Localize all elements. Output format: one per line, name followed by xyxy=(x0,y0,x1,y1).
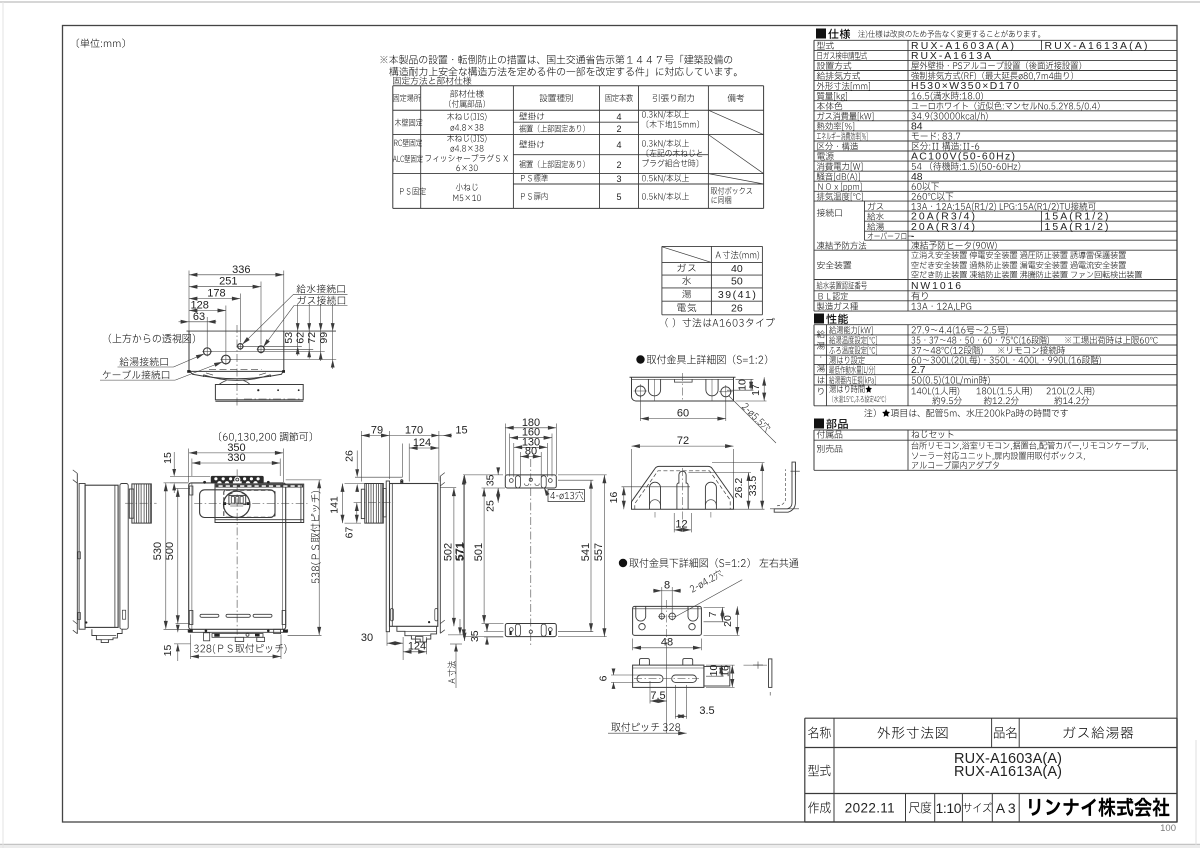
front top extension lines xyxy=(188,449,190,483)
svg-text:35: 35 xyxy=(469,630,481,642)
svg-text:35: 35 xyxy=(485,474,497,486)
svg-text:178: 178 xyxy=(207,288,225,300)
svg-text:12: 12 xyxy=(675,519,687,531)
bracket top dim 10 xyxy=(750,379,752,390)
right view cylinder connector xyxy=(383,489,386,517)
left view body xyxy=(85,485,118,627)
svg-text:26: 26 xyxy=(343,450,355,462)
dim 350 xyxy=(189,452,284,454)
mounting pitch 328 label xyxy=(611,722,680,731)
right view dim 124 top xyxy=(409,447,439,449)
svg-text:100: 100 xyxy=(1160,823,1176,834)
svg-text:124: 124 xyxy=(408,641,426,653)
right view top dims 79 170 15 xyxy=(361,435,389,437)
left view cylinder center line xyxy=(125,502,157,504)
right view mounting plate xyxy=(386,481,389,632)
bracket top slots u-shapes xyxy=(648,379,660,396)
4-phi13 hole label xyxy=(548,490,585,502)
cable label xyxy=(103,370,169,379)
safety devices 3 lines xyxy=(911,251,1125,259)
bracket top dim 17 xyxy=(763,377,765,401)
right view exhaust cylinder xyxy=(365,484,384,524)
bracket side slots oblong xyxy=(637,675,663,682)
vertical dims 53 62 72 99 xyxy=(297,304,299,356)
right view top bracket bump xyxy=(401,480,403,484)
right view dim 571 xyxy=(463,476,465,638)
bracket bottom detail label xyxy=(619,559,627,567)
right view dim 502 xyxy=(453,488,455,627)
svg-text:4: 4 xyxy=(616,140,621,150)
svg-text:170: 170 xyxy=(405,425,423,437)
top view exhaust duct box xyxy=(215,385,303,400)
A-dim caption xyxy=(666,318,775,327)
svg-text:50: 50 xyxy=(731,276,743,288)
bracket top dim 60 xyxy=(640,418,725,420)
svg-text:7.5: 7.5 xyxy=(650,690,665,702)
company name Rinnai xyxy=(1029,798,1169,817)
bracket side dim 3.5 xyxy=(675,715,686,717)
svg-text:RUX-A1613A(A): RUX-A1613A(A) xyxy=(954,764,1062,780)
svg-text:84: 84 xyxy=(911,121,923,132)
spec title xyxy=(816,29,826,39)
bracket side dim 7.5 xyxy=(650,700,667,702)
bracket bottom dim 20 xyxy=(736,606,738,635)
performance vertical label xyxy=(817,330,825,338)
top dims extension lines xyxy=(188,271,190,332)
bracket bottom lower holes xyxy=(639,624,645,630)
bracket side dim 10 xyxy=(720,665,722,676)
right view dim 26 xyxy=(356,451,358,475)
svg-text:20A(R3/4): 20A(R3/4) xyxy=(911,222,975,233)
back view dim 25 xyxy=(482,487,506,489)
right view A-dim xyxy=(459,619,461,631)
svg-text:48: 48 xyxy=(911,172,923,183)
right view top extension lines xyxy=(360,431,362,482)
front view bottom pipes xyxy=(212,634,263,638)
unit note xyxy=(77,39,125,48)
fixing table remarks diagonals xyxy=(708,110,763,134)
back view bottom bracket xyxy=(505,624,556,637)
trapezoid center keyhole xyxy=(677,471,688,509)
dim 538 PS pitch right xyxy=(318,480,320,635)
bracket bottom center holes xyxy=(659,614,664,619)
svg-text:336: 336 xyxy=(232,264,250,276)
right view side tabs xyxy=(390,609,393,621)
svg-text:8: 8 xyxy=(664,580,670,592)
left view side tabs xyxy=(78,552,81,559)
top view caption xyxy=(109,334,195,344)
trapezoid outline xyxy=(632,466,734,509)
svg-text:72: 72 xyxy=(677,435,689,447)
front view exhaust box inner lines xyxy=(215,519,304,521)
dim 128 xyxy=(189,310,226,312)
top view body rect xyxy=(188,331,190,371)
svg-text:4: 4 xyxy=(616,112,621,122)
performance labels xyxy=(829,326,872,335)
dim 336 xyxy=(189,274,284,276)
front view bottom bracket strip xyxy=(188,631,287,633)
svg-text:20: 20 xyxy=(722,615,734,627)
top bracket slots xyxy=(515,476,520,488)
back view dim extensions top xyxy=(504,424,506,475)
bracket bottom side view xyxy=(633,665,704,687)
svg-text:251: 251 xyxy=(219,276,237,288)
svg-text:79: 79 xyxy=(371,425,383,437)
svg-text:557: 557 xyxy=(593,543,605,561)
svg-text:RUX-A1613A: RUX-A1613A xyxy=(911,51,991,62)
left view exhaust cylinder xyxy=(132,484,151,523)
front view vents xyxy=(200,614,219,617)
bracket top detail label xyxy=(636,355,644,363)
trapezoid dim 33.5 xyxy=(761,463,763,510)
fixing table title xyxy=(393,77,471,85)
front view center lines xyxy=(236,469,238,634)
dim 500 xyxy=(177,489,179,624)
trapezoid dim 26.2 xyxy=(748,473,750,510)
A-dim table diagonal xyxy=(662,247,711,263)
svg-text:7: 7 xyxy=(707,611,719,617)
svg-text:124: 124 xyxy=(413,437,431,449)
top view wall reference line xyxy=(187,330,337,332)
front view fan scroll xyxy=(224,491,250,517)
svg-text:500: 500 xyxy=(164,542,176,560)
trapezoid dim 16 xyxy=(623,487,625,509)
cable connection circle xyxy=(222,355,231,364)
bracket bottom dim 7 xyxy=(721,607,723,621)
svg-text:RUX-A1613A(A): RUX-A1613A(A) xyxy=(1045,41,1148,52)
right view dim 67 xyxy=(356,503,358,523)
performance values xyxy=(912,326,1008,335)
title block row2 models xyxy=(808,765,830,776)
bracket top detail plan xyxy=(632,377,734,401)
right view dim 141 xyxy=(342,484,344,524)
bracket bottom L-profile right xyxy=(744,664,768,666)
svg-text:33.5: 33.5 xyxy=(747,476,759,497)
svg-text:17: 17 xyxy=(750,384,762,396)
fixing table row2 RC/ALC wall xyxy=(394,139,422,147)
svg-text:72: 72 xyxy=(306,332,318,344)
svg-text:6: 6 xyxy=(598,675,610,681)
front view dim 60-130-200 note xyxy=(219,432,312,442)
svg-text:3.5: 3.5 xyxy=(699,705,714,717)
title block row3 xyxy=(808,802,831,814)
bracket top center tab xyxy=(674,379,692,382)
parts values 3 lines xyxy=(911,441,1147,450)
front view top bracket punched band xyxy=(211,476,264,483)
water supply label xyxy=(297,284,345,293)
dim 330 xyxy=(192,462,280,464)
svg-text:16: 16 xyxy=(719,665,731,677)
svg-text:AC100V(50-60Hz): AC100V(50-60Hz) xyxy=(911,152,1015,163)
svg-text:26.2: 26.2 xyxy=(733,478,745,499)
front view body xyxy=(189,483,286,629)
back view top bracket xyxy=(505,475,556,488)
svg-text:5: 5 xyxy=(616,192,621,202)
svg-text:15A(R1/2): 15A(R1/2) xyxy=(1045,222,1109,233)
A-dim table texts xyxy=(716,251,760,260)
performance table grid xyxy=(814,324,1177,326)
bracket side dim 6 xyxy=(613,672,615,675)
bracket top L-profile side view xyxy=(774,462,795,512)
dim 530 xyxy=(165,483,167,629)
title block row1 xyxy=(808,727,830,739)
dim 178 xyxy=(189,298,240,300)
bracket bottom corner notches xyxy=(636,606,646,621)
back view dim 541 xyxy=(590,480,592,632)
page edge artifacts xyxy=(0,1,1200,3)
svg-text:40: 40 xyxy=(731,263,743,275)
A-dim table grid xyxy=(662,245,763,247)
left view wall line xyxy=(76,473,78,633)
svg-text:141: 141 xyxy=(329,496,341,514)
hot water label xyxy=(120,357,168,366)
back view dim 35 top xyxy=(497,470,499,475)
regulation note line2 xyxy=(389,67,736,76)
gas connection circle xyxy=(258,346,265,353)
svg-text:60: 60 xyxy=(677,407,689,419)
svg-text:30: 30 xyxy=(361,632,373,644)
back view dim 501 xyxy=(483,488,485,624)
back view dim 35 bottom xyxy=(486,627,488,632)
gas label xyxy=(298,296,346,305)
svg-text:1:10: 1:10 xyxy=(936,800,962,816)
svg-text:15: 15 xyxy=(162,645,174,657)
bracket bottom center line xyxy=(666,600,668,640)
trapezoid dim 12 xyxy=(674,529,691,531)
svg-text:330: 330 xyxy=(227,452,245,464)
svg-text:15: 15 xyxy=(162,452,174,464)
dim 251 xyxy=(189,286,261,288)
back view dim 557 xyxy=(603,475,605,637)
svg-text:H530×W350×D170: H530×W350×D170 xyxy=(911,81,1019,92)
bracket bottom plan xyxy=(633,606,702,635)
trapezoid side slots xyxy=(650,482,661,509)
svg-text:501: 501 xyxy=(473,543,485,561)
left view bottom pipes staircase xyxy=(92,629,122,642)
back view stacked dims 180 160 130 80 xyxy=(505,427,556,429)
note below performance xyxy=(864,409,1068,418)
2-phi5.5 hole label diag xyxy=(729,396,777,444)
svg-text:80: 80 xyxy=(525,446,537,458)
svg-text:10: 10 xyxy=(708,665,720,677)
svg-text:67: 67 xyxy=(343,527,355,539)
dim 328 PS pitch xyxy=(194,644,286,654)
right view wall line xyxy=(439,476,441,633)
svg-text:2022.11: 2022.11 xyxy=(845,801,895,816)
duct transition curves xyxy=(219,381,227,385)
svg-text:502: 502 xyxy=(443,543,455,561)
front view rounded panel xyxy=(200,490,275,518)
svg-text:39(41): 39(41) xyxy=(718,289,756,301)
right view cylinder center line xyxy=(354,502,394,504)
svg-text:-: - xyxy=(911,231,914,242)
fixing table row1 wood wall xyxy=(395,119,422,127)
svg-text:62: 62 xyxy=(295,332,307,344)
top view center line xyxy=(236,325,238,406)
hot water connection circle xyxy=(204,348,211,355)
svg-text:10: 10 xyxy=(737,379,749,391)
svg-text:2: 2 xyxy=(616,160,621,170)
connection level lines xyxy=(243,345,302,347)
bracket bottom dim 8 xyxy=(653,590,662,592)
svg-text:26: 26 xyxy=(731,303,743,315)
back view center line xyxy=(530,459,532,645)
spec table grid xyxy=(814,39,1177,41)
svg-text:48: 48 xyxy=(661,637,673,649)
svg-text:2.7: 2.7 xyxy=(911,365,926,376)
left view back plate right xyxy=(120,484,128,630)
front view exhaust grille strip xyxy=(216,485,304,488)
svg-text:571: 571 xyxy=(454,542,466,560)
svg-text:16: 16 xyxy=(608,492,620,504)
bracket top profile trapezoid xyxy=(632,445,734,447)
back view dim 571 left xyxy=(464,475,466,641)
front view hidden alcove rect xyxy=(224,490,275,517)
svg-text:25: 25 xyxy=(485,500,497,512)
svg-text:530: 530 xyxy=(152,542,164,560)
svg-text:128: 128 xyxy=(191,300,209,312)
parts table grid xyxy=(814,429,1177,431)
right view dim 30 xyxy=(387,642,403,644)
front view side tabs xyxy=(189,486,193,495)
svg-text:541: 541 xyxy=(580,543,592,561)
regulation note line1 xyxy=(380,55,732,65)
svg-text:2: 2 xyxy=(616,124,621,134)
right view bottom pipes xyxy=(397,626,437,642)
svg-text:53: 53 xyxy=(283,332,295,344)
water supply connection circle xyxy=(238,344,243,349)
front view exhaust outer box xyxy=(215,484,304,522)
spec table labels xyxy=(817,42,834,50)
bracket side dim 16 xyxy=(731,665,733,687)
front view fan motor xyxy=(229,495,246,504)
right view dim 124 bottom xyxy=(403,651,427,653)
2-phi4.2 label diag xyxy=(675,580,742,617)
parts title xyxy=(814,419,824,429)
svg-text:63: 63 xyxy=(193,311,205,323)
bracket bottom dim 48 xyxy=(633,647,702,649)
performance title xyxy=(814,314,824,324)
svg-text:15: 15 xyxy=(455,425,467,437)
title block grid xyxy=(805,717,1177,719)
fixing table row3 PS xyxy=(400,187,426,195)
fixing table grid xyxy=(393,85,764,87)
top view body curved front xyxy=(190,371,283,378)
left view mounting plate xyxy=(79,484,85,630)
right view body xyxy=(390,484,438,627)
svg-text:99: 99 xyxy=(318,332,330,344)
svg-text:3: 3 xyxy=(616,174,621,184)
dim 63 arrows outside xyxy=(179,321,190,323)
fixing table header texts xyxy=(393,94,420,102)
top view hidden dashes xyxy=(209,368,262,370)
